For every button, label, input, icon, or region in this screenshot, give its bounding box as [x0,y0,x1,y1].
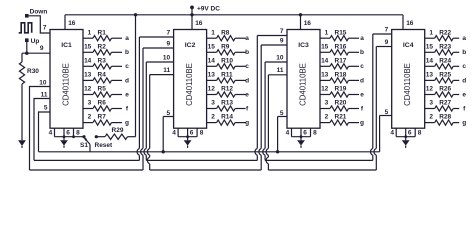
wire carry rail segment 1 [34,159,139,161]
wire reset rail [39,151,380,153]
resistor R15 [320,37,330,39]
svg-text:Reset: Reset [95,142,114,149]
svg-text:15: 15 [208,43,216,50]
svg-text:S1: S1 [80,142,88,149]
svg-text:15: 15 [321,43,329,50]
resistor R14 [207,122,217,124]
svg-text:3: 3 [325,100,329,107]
svg-text:Up: Up [31,38,40,45]
resistor R10 [207,65,217,67]
wire pin 4 of IC1 to ground bar [54,128,56,137]
ground IC1 [63,137,65,141]
IC U3 CD40110BE [287,30,320,129]
svg-text:7: 7 [280,28,284,35]
svg-text:13: 13 [321,72,329,79]
svg-text:g: g [245,120,249,127]
svg-text:IC3: IC3 [298,42,309,49]
resistor R13 [207,108,217,110]
svg-text:10: 10 [276,54,284,61]
svg-text:R6: R6 [98,100,107,107]
wire R29 to +9V riser [128,136,136,138]
svg-text:16: 16 [304,20,312,27]
svg-text:R23: R23 [439,43,451,50]
wire IC3 pin 5 from reset rail [277,117,279,152]
resistor R6 [83,108,93,110]
svg-text:1: 1 [211,29,215,36]
resistor R21 [320,122,330,124]
svg-text:12: 12 [426,86,434,93]
svg-text:R28: R28 [439,114,451,121]
svg-text:a: a [360,35,364,42]
svg-text:9: 9 [166,40,170,47]
svg-text:b: b [462,49,466,56]
svg-text:R15: R15 [335,29,347,36]
svg-text:c: c [125,63,129,70]
wire IC3 pin 9 from borrow rail [260,45,262,148]
wire IC3 pin 7 from carry rail [256,36,258,149]
svg-text:R30: R30 [27,68,39,75]
svg-text:5: 5 [280,110,284,117]
svg-text:g: g [360,120,364,127]
svg-text:d: d [245,77,249,84]
svg-text:13: 13 [84,72,92,79]
svg-text:e: e [245,91,249,98]
wire pin 4 of IC4 to ground bar [395,128,397,137]
resistor R28 [425,122,435,124]
svg-text:14: 14 [321,57,329,64]
svg-text:5: 5 [385,109,389,116]
svg-text:c: c [245,63,249,70]
wire S1 to reset rail [89,144,91,151]
wire junction to R30 [21,53,23,62]
svg-text:12: 12 [321,86,329,93]
node Up / R30 junction [25,52,28,55]
resistor R4 [83,79,93,81]
svg-text:7: 7 [43,25,47,32]
svg-text:e: e [462,91,466,98]
svg-text:15: 15 [84,43,92,50]
wire pin 16 of IC3 to +9V rail [300,15,302,30]
wire IC4 pin 5 from reset rail [379,116,381,152]
svg-text:3: 3 [429,100,433,107]
resistor R22 [425,37,435,39]
wire ground bar IC2 [178,136,197,138]
wire IC2 pin 10 to carry rail [145,62,147,148]
ground IC3 [300,137,302,141]
wire IC1 pin 10 to borrow rail [30,87,51,171]
wire pin 16 of IC2 to +9V rail [191,15,193,30]
resistor R3 [83,65,93,67]
svg-text:14: 14 [426,57,434,64]
wire IC2 pin 11 to borrow rail [149,75,151,149]
svg-text:R21: R21 [335,114,347,121]
svg-text:12: 12 [84,86,92,93]
svg-text:8: 8 [418,130,422,137]
IC U2 CD40110BE [174,30,207,129]
svg-text:R8: R8 [221,29,230,36]
wire IC2 pin 7 from carry rail [138,37,140,148]
svg-text:6: 6 [66,130,70,137]
svg-text:e: e [360,91,364,98]
svg-text:d: d [360,77,364,84]
wire ground bar IC1 [55,136,85,138]
svg-text:a: a [245,35,249,42]
svg-text:16: 16 [195,20,203,27]
svg-text:4: 4 [49,130,53,137]
svg-text:a: a [462,35,466,42]
resistor R19 [320,94,330,96]
svg-text:6: 6 [303,130,307,137]
svg-text:1: 1 [88,29,92,36]
svg-text:10: 10 [39,80,47,87]
svg-text:R14: R14 [221,114,233,121]
node +9V rail junction for R29 [134,13,137,16]
svg-text:4: 4 [172,130,176,137]
svg-text:11: 11 [41,91,48,98]
resistor R24 [425,65,435,67]
resistor R11 [207,79,217,81]
svg-text:R7: R7 [98,114,107,121]
wire pin 6 of IC1 to ground bar [63,128,65,137]
resistor R29 [105,134,128,139]
resistor R8 [207,37,217,39]
ground IC2 [187,137,189,141]
svg-text:CD40110BE: CD40110BE [185,63,194,106]
svg-text:9: 9 [280,37,284,44]
wire borrow rail segment 3 [268,169,376,171]
resistor R2 [83,51,93,53]
svg-text:R24: R24 [439,57,451,64]
svg-text:g: g [462,120,466,127]
wire pin 8 of IC1 to ground bar [73,128,75,137]
svg-text:d: d [125,77,129,84]
resistor R18 [320,79,330,81]
svg-text:R5: R5 [98,86,107,93]
svg-text:4: 4 [286,130,290,137]
IC U4 CD40110BE [392,30,425,129]
svg-text:3: 3 [211,100,215,107]
wire pin 8 of IC2 to ground bar [196,128,198,137]
svg-text:IC4: IC4 [403,42,414,49]
terminal Up input [25,38,29,42]
svg-text:7: 7 [385,26,389,33]
resistor R23 [425,51,435,53]
wire pin 16 of IC4 to +9V rail [402,15,404,30]
wire Up input to IC1 pin 9 [26,42,28,53]
svg-text:IC1: IC1 [61,42,72,49]
terminal +9V DC [190,6,194,10]
svg-text:c: c [360,63,364,70]
terminal Down input [25,14,29,18]
ground below R30 [18,140,26,146]
svg-text:9: 9 [385,39,389,46]
svg-text:9: 9 [40,45,44,52]
svg-text:14: 14 [84,57,92,64]
wire IC1 pin 5 to reset rail [39,112,51,152]
wire pin 4 of IC2 to ground bar [177,128,179,137]
svg-text:6: 6 [190,130,194,137]
svg-text:6: 6 [408,130,412,137]
svg-text:R12: R12 [221,86,233,93]
resistor R26 [425,94,435,96]
svg-text:CD40110BE: CD40110BE [299,63,308,106]
resistor R25 [425,79,435,81]
wire IC4 pin 9 from borrow rail [375,47,377,149]
svg-text:5: 5 [166,110,170,117]
svg-text:b: b [360,49,364,56]
wire carry rail segment 3 [265,159,373,161]
resistor R9 [207,51,217,53]
svg-text:R19: R19 [335,86,347,93]
svg-text:1: 1 [325,29,329,36]
wire pin 6 of IC3 to ground bar [300,128,302,137]
wire IC3 pin 11 to borrow rail [267,75,269,149]
svg-text:CD40110BE: CD40110BE [403,63,412,106]
wire IC3 pin 10 to carry rail [264,62,266,148]
svg-text:b: b [245,49,249,56]
wire carry rail segment 2 [146,159,257,161]
resistor R7 [83,122,93,124]
wire R30 to ground [21,84,23,140]
wire Reset line to R29 [96,136,105,138]
svg-text:8: 8 [76,130,80,137]
svg-text:7: 7 [166,29,170,36]
svg-text:8: 8 [200,130,204,137]
wire Down input to IC1 pin 7 [29,16,50,33]
clock pulse waveform symbol [19,23,32,33]
svg-text:R27: R27 [439,100,451,107]
wire pin 16 of IC1 to +9V rail [64,15,66,30]
svg-text:1: 1 [429,29,433,36]
svg-text:13: 13 [426,72,434,79]
svg-text:16: 16 [406,20,414,27]
svg-text:2: 2 [88,114,92,121]
svg-text:Down: Down [30,8,48,15]
wire ground bar IC3 [292,136,311,138]
resistor R30 [19,62,24,84]
svg-text:11: 11 [277,67,284,74]
svg-text:2: 2 [211,114,215,121]
wire pin 4 of IC3 to ground bar [291,128,293,137]
svg-text:13: 13 [208,72,216,79]
svg-text:3: 3 [88,100,92,107]
svg-text:d: d [462,77,466,84]
svg-text:R16: R16 [335,43,347,50]
wire borrow rail segment 2 [150,169,262,171]
svg-text:R20: R20 [335,100,347,107]
svg-text:2: 2 [325,114,329,121]
IC U1 CD40110BE [50,30,83,129]
svg-text:b: b [125,49,129,56]
wire ground bar IC4 [396,136,415,138]
svg-text:R3: R3 [98,57,107,64]
svg-text:11: 11 [163,67,170,74]
svg-text:c: c [462,63,466,70]
svg-text:4: 4 [390,130,394,137]
svg-text:R18: R18 [335,72,347,79]
svg-text:12: 12 [208,86,216,93]
svg-text:R2: R2 [98,43,107,50]
svg-text:IC2: IC2 [185,42,196,49]
wire IC2 pin 9 from borrow rail [142,48,144,148]
svg-text:R22: R22 [439,29,451,36]
svg-text:5: 5 [44,105,48,112]
svg-text:10: 10 [163,54,171,61]
wire pin 8 of IC3 to ground bar [310,128,312,137]
svg-text:15: 15 [426,43,434,50]
node IC2 pin 5 reset rail junction [162,150,165,153]
svg-text:2: 2 [429,114,433,121]
svg-text:16: 16 [68,20,76,27]
resistor R16 [320,51,330,53]
wire IC1 pin 11 to carry rail [34,99,50,161]
svg-text:8: 8 [313,130,317,137]
svg-text:R11: R11 [221,72,233,79]
svg-text:R26: R26 [439,86,451,93]
ground IC4 [405,137,407,141]
svg-text:a: a [125,35,129,42]
wire +9V supply rail [65,14,403,16]
svg-text:+9V DC: +9V DC [197,6,220,13]
node +9V rail junction at IC2 [190,13,193,16]
resistor R17 [320,65,330,67]
wire pin 6 of IC4 to ground bar [405,128,407,137]
wire IC2 pin 5 from reset rail [162,117,164,152]
svg-text:R10: R10 [221,57,233,64]
switch S1 lever [85,138,90,144]
wire pin 6 of IC2 to ground bar [187,128,189,137]
svg-text:R25: R25 [439,72,451,79]
wire R29 pull-up riser [135,15,137,137]
svg-text:R9: R9 [221,43,230,50]
resistor R27 [425,108,435,110]
svg-text:R29: R29 [112,127,124,134]
wire IC4 pin 7 from carry rail [372,34,374,148]
resistor R5 [83,94,93,96]
svg-text:R4: R4 [98,72,107,79]
svg-text:R13: R13 [221,100,233,107]
wire pin 8 of IC4 to ground bar [414,128,416,137]
svg-text:g: g [125,120,129,127]
node IC3 pin 5 reset rail junction [276,150,279,153]
switch S1 right contact [95,135,98,138]
svg-text:CD40110BE: CD40110BE [62,63,71,106]
svg-text:e: e [125,91,129,98]
wire borrow rail segment 1 [30,169,144,171]
svg-text:R17: R17 [335,57,347,64]
resistor R20 [320,108,330,110]
svg-text:14: 14 [208,57,216,64]
svg-text:R1: R1 [98,29,107,36]
resistor R12 [207,94,217,96]
resistor R1 [83,37,93,39]
switch S1 left contact [82,135,85,138]
node +9V rail junction at IC3 [299,13,302,16]
